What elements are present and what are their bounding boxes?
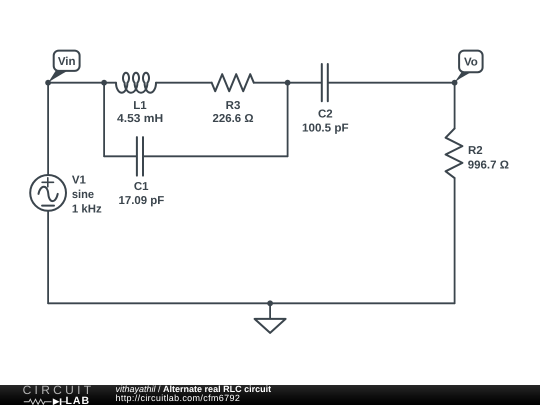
- logo diode bar: [60, 398, 62, 405]
- wire parallel branch right leg up to junction B: [287, 83, 289, 157]
- wire left rail below V1: [47, 211, 49, 303]
- footer credit text: [116, 385, 272, 402]
- capacitor C1 plates: [137, 137, 143, 176]
- svg-text:LAB: LAB: [66, 395, 91, 405]
- wire Vin-node to junction A (top left): [48, 82, 104, 84]
- junction node dot A: [101, 80, 107, 86]
- wire R3 to junction B: [254, 82, 288, 84]
- svg-text:Vo: Vo: [464, 57, 478, 69]
- V1 sine waveform: [39, 187, 58, 201]
- junction node dot B: [285, 80, 291, 86]
- svg-text:100.5 pF: 100.5 pF: [302, 122, 349, 134]
- resistor R2: [446, 128, 463, 178]
- svg-text:C1: C1: [134, 181, 149, 193]
- Vin flag box: [54, 51, 80, 71]
- wire Vo node down to R2: [454, 83, 456, 129]
- svg-text:17.09 pF: 17.09 pF: [119, 195, 165, 207]
- wire junction A leg to C1: [104, 155, 136, 157]
- ground symbol triangle: [255, 319, 286, 333]
- wire R2 to bottom right corner: [454, 178, 456, 303]
- junction node dot ground: [267, 300, 273, 306]
- wire parallel branch: junction A down: [103, 83, 105, 157]
- svg-text:R2: R2: [468, 145, 483, 157]
- CircuitLab logo: [18, 385, 118, 405]
- svg-text:V1: V1: [72, 175, 87, 187]
- wire L1 to R3: [156, 82, 212, 84]
- wire junction A to L1: [104, 82, 116, 84]
- V1 plus sign: [42, 178, 53, 187]
- logo line to LAB: [61, 401, 67, 403]
- ground stub wire: [269, 303, 271, 318]
- svg-text:1 kHz: 1 kHz: [72, 203, 102, 215]
- svg-text:L1: L1: [133, 100, 147, 112]
- Vo flag box: [459, 51, 483, 73]
- logo resistor squiggle: [24, 399, 52, 404]
- inductor L1: [116, 73, 156, 93]
- wire bottom rail: [48, 302, 455, 304]
- logo diode arrow: [53, 398, 60, 405]
- svg-text:996.7 Ω: 996.7 Ω: [468, 159, 509, 171]
- Vin flag tail: [48, 71, 67, 83]
- svg-text:4.53 mH: 4.53 mH: [117, 113, 163, 125]
- wire C1 to right leg: [144, 155, 288, 157]
- wire C2 to Vo node: [329, 82, 455, 84]
- junction node dot Vin: [45, 80, 51, 86]
- resistor R3: [212, 74, 254, 91]
- Vo flag tail: [455, 72, 472, 82]
- footer bar: [0, 385, 540, 405]
- voltage source V1 circle: [30, 175, 66, 211]
- wire Vin node down to V1: [47, 83, 49, 175]
- svg-text:Vin: Vin: [58, 56, 76, 68]
- svg-text:sine: sine: [72, 189, 94, 201]
- svg-text:R3: R3: [226, 100, 241, 112]
- svg-text:226.6 Ω: 226.6 Ω: [213, 113, 254, 125]
- svg-text:C2: C2: [318, 109, 333, 121]
- V1 minus sign: [42, 205, 54, 207]
- capacitor C2 plates: [322, 64, 328, 101]
- wire junction B to C2: [288, 82, 321, 84]
- junction node dot Vo: [452, 80, 458, 86]
